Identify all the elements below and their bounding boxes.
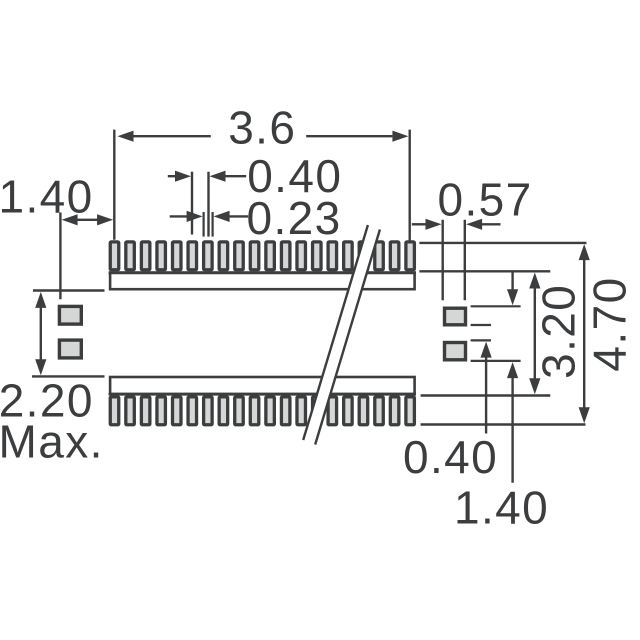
- dim 0.40BR up arrow leader: [485, 357, 487, 434]
- pin 10 (bottom row): [250, 397, 258, 425]
- dim 1.40BR up arrow leader: [511, 377, 513, 483]
- pin 17 (bottom row): [359, 397, 368, 425]
- dim 3.6 left arrow: [130, 135, 211, 137]
- dim 3.6 right arrow: [306, 135, 392, 137]
- pin 18 (top row): [375, 242, 384, 270]
- dim 0.23 left arrow: [170, 215, 187, 217]
- pin 5 (top row): [172, 242, 181, 270]
- svg-text:1.40: 1.40: [454, 482, 549, 534]
- pin 11 (top row): [266, 242, 275, 270]
- dim 0.23 left stub (pin edge): [203, 212, 205, 237]
- connector body (bottom row): [110, 377, 415, 394]
- pin 14 (top row): [313, 242, 322, 270]
- dim 3.20 vertical line with arrows: [534, 287, 536, 380]
- pin 15 (top row): [328, 242, 337, 270]
- pin 16 (bottom row): [344, 397, 353, 425]
- pin 11 (bottom row): [266, 397, 275, 425]
- pad right top: [445, 308, 466, 325]
- pin 16 (top row): [344, 242, 353, 270]
- pin 6 (top row): [188, 242, 197, 270]
- body top edge line (top row): [109, 271, 416, 274]
- dim 0.23 right arrow: [229, 215, 249, 217]
- dim 2.20 top reference line: [33, 289, 105, 291]
- dim 2.20 vertical arrow line: [40, 306, 42, 361]
- stub pad-right-bottom upper edge: [471, 339, 491, 341]
- pin 7 (bottom row): [204, 397, 213, 425]
- pad left bottom: [59, 340, 81, 358]
- pin 3 (bottom row): [141, 397, 150, 425]
- pin 2 (bottom row): [126, 397, 135, 425]
- svg-text:Max.: Max.: [0, 416, 104, 468]
- pin 3 (top row): [141, 242, 150, 270]
- stub pad-right-top lower edge: [471, 324, 491, 326]
- svg-text:0.57: 0.57: [438, 174, 533, 226]
- stub pad-right-bottom lower edge: [471, 360, 521, 362]
- pad right bottom: [445, 343, 466, 360]
- pin 9 (bottom row): [235, 397, 244, 425]
- pin 10 (top row): [250, 242, 258, 270]
- pin 7 (top row): [204, 242, 213, 270]
- dim 1.40BR down arrow: [511, 272, 513, 290]
- pin 19 (top row): [390, 242, 399, 270]
- pin 4 (bottom row): [157, 397, 166, 425]
- dim 0.40 right extension line (pin center): [207, 172, 209, 237]
- svg-text:3.20: 3.20: [533, 284, 585, 379]
- dim 0.23 right stub (pin edge): [212, 212, 214, 237]
- pin 8 (top row): [219, 242, 228, 270]
- dim 0.57 left extension line (pad edge): [442, 220, 444, 300]
- pin 13 (top row): [297, 242, 306, 270]
- connector body (top row): [110, 273, 415, 290]
- pin 4 (top row): [157, 242, 166, 270]
- dim 0.57 right arrow: [481, 223, 501, 225]
- dim 0.40 right arrow: [224, 175, 246, 177]
- pin 2 (top row): [126, 242, 135, 270]
- body bottom edge line (bottom row): [109, 393, 416, 396]
- pin 12 (top row): [281, 242, 290, 270]
- break band (white mask): [303, 225, 380, 445]
- stub pad-right-top upper edge: [471, 305, 521, 307]
- svg-text:3.6: 3.6: [228, 102, 296, 154]
- dim 3.6 right extension line: [409, 130, 411, 241]
- dim 0.57 right extension line (pad edge): [464, 220, 466, 300]
- pin 6 (bottom row): [188, 397, 197, 425]
- pin 13 (bottom row): [297, 397, 306, 425]
- pin 20 (bottom row): [406, 397, 415, 425]
- dim 4.70 vertical line with arrows: [583, 258, 585, 409]
- dim 1.40TL double arrow: [76, 219, 99, 221]
- dim 2.20 bottom reference line: [32, 375, 105, 377]
- pin 17 (top row): [359, 242, 368, 270]
- dim 0.40 left extension line (pin center): [191, 172, 193, 235]
- svg-text:0.40: 0.40: [403, 431, 498, 483]
- pin 8 (bottom row): [219, 397, 228, 425]
- pin 12 (bottom row): [281, 397, 290, 425]
- pin 1 (bottom row): [110, 397, 119, 425]
- pin 5 (bottom row): [172, 397, 181, 425]
- pin 9 (top row): [235, 242, 244, 270]
- dim 0.57 left arrow: [412, 223, 427, 225]
- dim 0.40 left arrow: [168, 175, 178, 177]
- ext line bottom pin-top level (for 3.20): [421, 394, 551, 396]
- pin 15 (bottom row): [328, 397, 337, 425]
- pad left top: [59, 306, 81, 324]
- ext line pin-top level (for 4.70): [419, 242, 586, 244]
- ext line pin-bottom level (for 3.20): [419, 270, 550, 272]
- pin 19 (bottom row): [390, 397, 399, 425]
- pin 14 (bottom row): [313, 397, 322, 425]
- pin 18 (bottom row): [375, 397, 384, 425]
- break line left: [303, 225, 368, 440]
- break line right: [315, 230, 380, 445]
- svg-text:0.23: 0.23: [247, 192, 342, 244]
- dim 1.40TL left extension line (pad edge): [59, 213, 61, 300]
- ext line bottom pin-bottom level (for 4.70): [421, 423, 586, 425]
- svg-text:4.70: 4.70: [584, 276, 636, 371]
- svg-text:1.40: 1.40: [0, 171, 94, 223]
- dim 3.6 left extension line: [113, 130, 115, 240]
- pin 1 (top row): [110, 242, 119, 270]
- pin 20 (top row): [406, 242, 415, 270]
